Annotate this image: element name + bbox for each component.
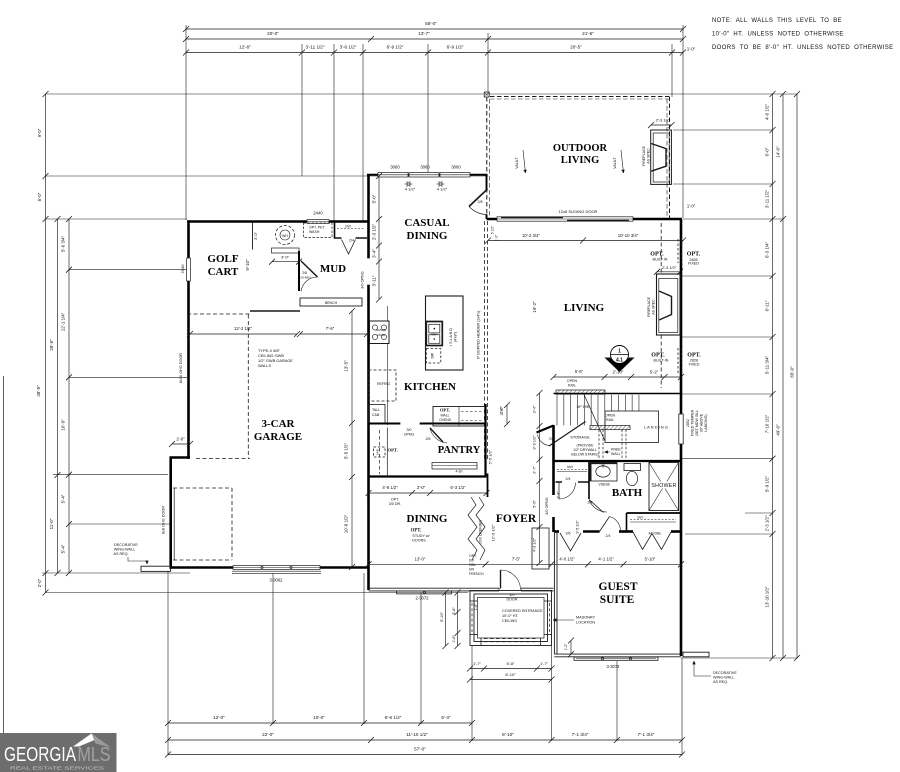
svg-text:DOORS TO BE 8′-0″ HT. UNL: DOORS TO BE 8′-0″ HT. UNLESS NOTED OTHER… [712, 45, 893, 51]
svg-text:55′-0″: 55′-0″ [425, 21, 437, 26]
svg-text:REFRIG: REFRIG [377, 382, 391, 386]
georgia mls logo box [0, 733, 117, 772]
decorative wing wall garage [141, 566, 171, 571]
svg-text:6′-3 1/2″: 6′-3 1/2″ [450, 485, 466, 490]
svg-text:2′-3 1/2″: 2′-3 1/2″ [372, 224, 377, 240]
svg-text:5′-0″: 5′-0″ [372, 194, 377, 203]
svg-text:10′-10 3/4″: 10′-10 3/4″ [618, 233, 639, 238]
left dim line 28'-5 column [57, 219, 59, 573]
dim 12'-2 1/2 garage [190, 333, 297, 335]
svg-text:5′-4″: 5′-4″ [61, 544, 66, 553]
section marker 1/4.1 [606, 358, 634, 372]
golf cart partial wall bottom [250, 310, 300, 312]
svg-text:RAIL: RAIL [568, 384, 576, 388]
outdoor fireplace [651, 130, 672, 184]
svg-text:9′-10″: 9′-10″ [245, 259, 250, 271]
svg-text:FIXED: FIXED [688, 262, 699, 266]
svg-text:1′-7″: 1′-7″ [473, 661, 482, 666]
dim row outdoor living sliding doors [488, 240, 683, 242]
svg-text:FIREPLACE: FIREPLACE [642, 145, 646, 166]
svg-text:sh/r: sh/r [345, 225, 352, 229]
svg-text:5′-2″: 5′-2″ [650, 370, 659, 375]
svg-text:2′-3 1/2″: 2′-3 1/2″ [656, 118, 671, 123]
svg-text:3/0 DR.: 3/0 DR. [389, 502, 402, 506]
dim line x352 kitchen depth [351, 311, 353, 567]
svg-text:3-3062: 3-3062 [269, 578, 283, 583]
bottom dim row2 [168, 739, 682, 741]
svg-text:10′-0″ HT. UNLESS NOTED OT: 10′-0″ HT. UNLESS NOTED OTHERWISE [712, 32, 844, 38]
svg-text:5′-6 3/4″: 5′-6 3/4″ [61, 236, 66, 252]
svg-text:4.1: 4.1 [616, 358, 623, 364]
svg-text:REAL ESTATE SERVICES: REAL ESTATE SERVICES [10, 766, 104, 771]
left dim line segments column [68, 219, 70, 573]
svg-text:OPT.: OPT. [411, 529, 422, 534]
svg-text:5′-11 3/4″: 5′-11 3/4″ [765, 355, 770, 374]
svg-text:6″ DOPPED HEADER (2x4′s): 6″ DOPPED HEADER (2x4′s) [477, 311, 481, 359]
svg-text:2′-0″: 2′-0″ [37, 578, 42, 587]
svg-text:10/0 OPENING: 10/0 OPENING [479, 520, 483, 544]
svg-text:(PROVIDE: (PROVIDE [577, 444, 595, 448]
svg-text:5′-10″: 5′-10″ [645, 556, 656, 561]
stair lower rail hatched [590, 426, 630, 430]
svg-text:10′-0″ HT.: 10′-0″ HT. [502, 614, 518, 618]
linen wall south segments [556, 481, 563, 483]
svg-text:5′-4″: 5′-4″ [61, 494, 66, 503]
svg-text:GARAGE: GARAGE [254, 431, 302, 443]
top dim row 55'-0" [186, 28, 683, 30]
island dishwasher [426, 349, 441, 364]
svg-text:3060: 3060 [420, 165, 430, 170]
covered entrance pier jamb lines [470, 600, 478, 602]
svg-text:13′-10 1/2″: 13′-10 1/2″ [765, 586, 770, 607]
left page edge line [3, 376, 5, 733]
svg-text:SINK: SINK [431, 333, 437, 336]
mud shelf 3'-0 [272, 248, 300, 253]
svg-text:FRENCH: FRENCH [469, 572, 484, 576]
svg-text:BENCH: BENCH [325, 301, 338, 305]
svg-text:DINING: DINING [407, 230, 448, 242]
right dim line 65'-0 [796, 94, 798, 658]
svg-text:3′-9 1/2″: 3′-9 1/2″ [532, 435, 537, 450]
opt wall ovens [433, 407, 486, 427]
svg-text:FIREPLACE: FIREPLACE [647, 296, 651, 317]
svg-text:12′-6 1/2″: 12′-6 1/2″ [491, 524, 496, 541]
svg-text:2′-0″: 2′-0″ [417, 485, 426, 490]
svg-text:20′-5″: 20′-5″ [570, 45, 582, 50]
svg-text:12′-6″: 12′-6″ [239, 45, 251, 50]
svg-text:4′-0 1/2″: 4′-0 1/2″ [765, 104, 770, 120]
svg-text:2/6: 2/6 [549, 437, 554, 441]
dashed header kitchen-living boundary [484, 221, 486, 460]
landing box [605, 411, 659, 443]
dashed line living west of fireplace [660, 223, 662, 274]
svg-text:1′-2″: 1′-2″ [564, 643, 568, 651]
wall bedroom north y531.5 segments [555, 530, 560, 533]
svg-text:2′-6″: 2′-6″ [499, 406, 504, 414]
shower [649, 463, 679, 511]
corner marker at outdoor living NW [484, 92, 489, 97]
svg-text:13′-7″: 13′-7″ [418, 31, 430, 36]
svg-text:6′-3 1/4″: 6′-3 1/4″ [765, 242, 770, 258]
svg-text:7′-1 3/4″: 7′-1 3/4″ [638, 732, 655, 737]
svg-text:3′-0″: 3′-0″ [253, 231, 258, 240]
small dim 1'-2 guest SW [570, 641, 572, 655]
svg-text:STORAGE: STORAGE [570, 435, 590, 440]
covered entrance bottom dims [470, 668, 552, 670]
dim row y564 dining/foyer/guest [369, 563, 682, 565]
svg-text:HOOD: HOOD [377, 333, 385, 337]
svg-text:6′-9 1/2″: 6′-9 1/2″ [447, 45, 464, 50]
svg-text:10′-2 3/4″: 10′-2 3/4″ [522, 233, 541, 238]
svg-text:5′-10″: 5′-10″ [440, 612, 444, 622]
svg-text:1/2″ DRYWALL: 1/2″ DRYWALL [573, 448, 597, 452]
svg-text:LIVING: LIVING [564, 302, 605, 314]
svg-text:4′-0 1/2″: 4′-0 1/2″ [559, 556, 575, 561]
svg-text:CEILING: CEILING [502, 619, 517, 623]
dim 7'-6 mud [300, 333, 367, 335]
decorative wing wall guest [683, 652, 709, 657]
svg-text:5′-5 1/2″: 5′-5 1/2″ [488, 449, 493, 464]
svg-text:DOORS: DOORS [412, 539, 426, 543]
stair top rail hatched [556, 390, 605, 394]
svg-text:DINING: DINING [407, 513, 448, 525]
range [370, 321, 390, 344]
wall dining/foyer south double line [369, 587, 500, 589]
svg-text:RAIL: RAIL [606, 418, 614, 422]
svg-text:5′-5 1/2″: 5′-5 1/2″ [344, 443, 349, 459]
guest closet shelf [630, 519, 676, 521]
svg-text:2′-3″: 2′-3″ [557, 491, 561, 499]
wall pantry east solid [484, 404, 486, 477]
svg-text:14′-0″: 14′-0″ [776, 146, 781, 158]
svg-text:7′-6″: 7′-6″ [326, 326, 335, 331]
wall guest west double line [553, 532, 555, 655]
right dim line 14'/49' [782, 94, 784, 658]
door 2/4 hall [559, 483, 576, 500]
svg-text:36″ ABOVE: 36″ ABOVE [700, 413, 704, 432]
bottom extension lines [167, 571, 169, 756]
svg-text:4 1/2″: 4 1/2″ [405, 187, 416, 192]
wh nook separator wall [252, 223, 254, 250]
svg-text:AS SPEC: AS SPEC [652, 299, 656, 315]
svg-text:BELOW STAIRS): BELOW STAIRS) [571, 453, 598, 457]
window band 3-3062 garage south [233, 565, 320, 569]
wall golf cart north [187, 220, 368, 223]
svg-text:1′-7″: 1′-7″ [540, 661, 549, 666]
svg-text:WH: WH [282, 234, 288, 238]
top extension lines [185, 25, 187, 220]
kitchen counter edge [387, 306, 389, 321]
left dim line 38'-5 column [45, 94, 47, 593]
covered entrance masonry dashes [471, 603, 473, 633]
wall closet side [626, 513, 628, 532]
left extension ticks [46, 175, 489, 177]
mullion marks 4 1/2 [407, 182, 410, 185]
svg-text:WING-WALL: WING-WALL [114, 548, 135, 552]
knee wall dashed [598, 430, 600, 459]
stair dim column x539 [539, 393, 541, 563]
foyer niche rect [532, 528, 549, 569]
svg-text:6′-6 1/2″: 6′-6 1/2″ [385, 715, 402, 720]
svg-text:5′-8″: 5′-8″ [507, 661, 516, 666]
svg-text:GUEST: GUEST [599, 581, 638, 593]
svg-text:4′-8 1/2″: 4′-8 1/2″ [382, 485, 398, 490]
svg-text:GEORGIA: GEORGIA [4, 744, 77, 766]
svg-text:4 1/2″: 4 1/2″ [437, 187, 448, 192]
svg-text:6′-9 1/2″: 6′-9 1/2″ [387, 45, 404, 50]
foyer door 3/0 leaf and arc [500, 570, 502, 589]
bench mud south [300, 298, 362, 306]
svg-text:5′-0″: 5′-0″ [37, 192, 42, 201]
svg-text:12′-2 1/2″: 12′-2 1/2″ [234, 326, 253, 331]
svg-text:5′-6″: 5′-6″ [532, 500, 537, 508]
svg-text:5′-4″: 5′-4″ [441, 715, 451, 720]
toilet [624, 464, 641, 471]
svg-text:13′-0″: 13′-0″ [415, 556, 426, 561]
opt desk dashed [374, 447, 386, 457]
svg-text:11′-0″: 11′-0″ [49, 518, 54, 529]
svg-text:3-CAR: 3-CAR [262, 418, 296, 430]
wall kitchen south [369, 423, 487, 425]
svg-text:2440: 2440 [376, 448, 380, 455]
svg-text:22′-0″: 22′-0″ [262, 732, 274, 737]
top dim row 20'/13'-7/21'-5 [186, 38, 683, 40]
svg-text:7′-10 1/2″: 7′-10 1/2″ [765, 414, 770, 433]
svg-text:2′-0″: 2′-0″ [176, 437, 185, 442]
opt pet wash cabinet [304, 223, 333, 238]
svg-text:21′-5″: 21′-5″ [582, 31, 594, 36]
svg-text:2′-7″: 2′-7″ [532, 466, 537, 474]
wall piece casual NE corner [486, 175, 488, 190]
svg-text:1′-0″: 1′-0″ [687, 47, 696, 52]
svg-text:LIVING: LIVING [561, 155, 600, 166]
wall bath north [553, 460, 682, 462]
svg-text:(4′x8″): (4′x8″) [454, 332, 458, 342]
pantry shelves [432, 463, 477, 470]
svg-text:VAULT: VAULT [515, 156, 519, 168]
window 2440 mud north [307, 219, 329, 223]
svg-text:13′-5″: 13′-5″ [344, 360, 349, 372]
svg-text:2′-10″: 2′-10″ [613, 370, 624, 375]
vanity VSB36 [591, 463, 618, 482]
wall casual dining north windowed [367, 174, 488, 176]
svg-text:OPT.: OPT. [391, 498, 399, 502]
covered entrance step dashes [484, 638, 538, 640]
sliding door 12x8 [497, 216, 633, 221]
svg-text:28′-5″: 28′-5″ [49, 339, 54, 351]
svg-text:UP 19R: UP 19R [577, 405, 590, 409]
pantry door 2/6 [430, 428, 443, 442]
svg-text:10′-8 1/2″: 10′-8 1/2″ [344, 514, 349, 533]
svg-text:I S L A N D: I S L A N D [449, 328, 453, 346]
svg-text:DW: DW [431, 352, 435, 358]
svg-text:3′-5 1/2″: 3′-5 1/2″ [576, 520, 580, 534]
svg-text:8′-10″: 8′-10″ [505, 672, 516, 677]
svg-text:4/0 DBL: 4/0 DBL [649, 532, 662, 536]
dim row under pantry wall [369, 492, 487, 494]
windows 3060 casual dining [378, 172, 408, 177]
svg-text:L A N D I N G: L A N D I N G [644, 425, 668, 430]
outdoor living dashed north edge [490, 96, 669, 98]
svg-text:8x8 OHG DOOR: 8x8 OHG DOOR [162, 506, 166, 535]
svg-text:2′-3 1/2″: 2′-3 1/2″ [765, 515, 770, 531]
svg-text:2/4: 2/4 [606, 534, 611, 538]
svg-text:49′-0″: 49′-0″ [776, 424, 781, 436]
svg-text:AS REQ.: AS REQ. [114, 552, 129, 556]
svg-text:KITCHEN: KITCHEN [404, 381, 456, 393]
svg-text:3′-8″: 3′-8″ [452, 607, 456, 615]
svg-text:MASONRY: MASONRY [576, 616, 596, 620]
svg-text:3′-11 1/2″: 3′-11 1/2″ [765, 189, 770, 208]
svg-text:9′-0″: 9′-0″ [37, 128, 42, 137]
svg-text:3060: 3060 [451, 165, 461, 170]
garage dashed ceiling line vertical [247, 315, 249, 459]
svg-text:MUD: MUD [320, 263, 346, 275]
wall guest south double line [554, 653, 681, 655]
svg-text:WING-WALL: WING-WALL [713, 676, 734, 680]
living fireplace [657, 274, 681, 335]
wall sliding door south of outdoor living [487, 218, 683, 221]
svg-text:1′-0″: 1′-0″ [687, 204, 696, 209]
water heater circle [276, 226, 295, 245]
window 2040 in west wall [186, 258, 191, 281]
top dim row segments [186, 52, 683, 54]
svg-text:1′-6″: 1′-6″ [452, 635, 456, 643]
svg-text:3′-4″: 3′-4″ [532, 405, 537, 413]
logo mountain white [73, 734, 98, 747]
svg-text:2/6: 2/6 [566, 532, 571, 536]
dim row living south [554, 376, 682, 378]
svg-text:LANDING): LANDING) [704, 414, 708, 431]
refrigerator dashed [369, 370, 397, 401]
svg-text:7′-1 3/4″: 7′-1 3/4″ [572, 732, 589, 737]
svg-text:DBL: DBL [469, 563, 476, 567]
svg-text:CART: CART [208, 266, 239, 278]
svg-text:RANGE: RANGE [376, 328, 386, 332]
svg-text:BUILT-IN: BUILT-IN [653, 258, 668, 262]
svg-text:NOTE: ALL WALLS THIS LEVEL: NOTE: ALL WALLS THIS LEVEL TO BE [712, 18, 842, 24]
svg-text:WALL: WALL [611, 452, 621, 456]
wall dining-foyer stub [487, 474, 489, 498]
window 2852 at landing [678, 414, 684, 444]
svg-text:10′-0″: 10′-0″ [313, 715, 325, 720]
svg-text:BATH: BATH [612, 487, 643, 499]
door 2/8 20-min garage to mud [301, 261, 318, 277]
svg-text:65′-0″: 65′-0″ [790, 366, 795, 378]
right extension ticks [673, 129, 773, 131]
top reference line y94 [46, 93, 798, 95]
svg-text:FIXED TEMPER: FIXED TEMPER [691, 409, 695, 436]
covered entrance outer walls [470, 591, 552, 646]
svg-text:OPT.: OPT. [469, 554, 477, 558]
svg-text:12′-0″: 12′-0″ [213, 715, 225, 720]
svg-text:3′-4″: 3′-4″ [372, 249, 377, 258]
svg-text:WALL: WALL [440, 414, 449, 418]
svg-text:20′-0″: 20′-0″ [267, 31, 279, 36]
wall pantry south [369, 475, 487, 477]
svg-text:STUDY w/: STUDY w/ [412, 534, 430, 538]
svg-text:6/0: 6/0 [469, 559, 474, 563]
garage dashed corner jog [196, 458, 250, 460]
svg-text:2/4: 2/4 [566, 477, 571, 481]
covered entrance inner lines [474, 594, 548, 642]
garage dashed parking rect [173, 487, 232, 489]
stair diagonal break [584, 395, 605, 442]
svg-text:OVENS: OVENS [439, 418, 452, 422]
svg-text:sh/r: sh/r [567, 465, 574, 469]
svg-text:3′-11″: 3′-11″ [372, 275, 377, 286]
svg-text:OPT.: OPT. [440, 408, 450, 413]
svg-text:3′-6 1/2″: 3′-6 1/2″ [340, 45, 357, 50]
svg-text:3/0 OPNG: 3/0 OPNG [545, 497, 549, 515]
island sink [426, 322, 442, 346]
svg-text:4-sh: 4-sh [456, 470, 463, 474]
outdoor living dashed west edge [486, 97, 488, 218]
svg-text:VAULT: VAULT [613, 156, 617, 168]
svg-text:20-MIN: 20-MIN [300, 276, 310, 280]
svg-text:COVERED ENTRANCE: COVERED ENTRANCE [502, 609, 543, 613]
svg-text:1′-3″: 1′-3″ [495, 234, 499, 241]
wall garage west jog [170, 456, 191, 459]
label 2'-0 jog dim [172, 443, 190, 445]
covered entrance side dims [445, 593, 447, 647]
svg-text:OPEN: OPEN [605, 414, 616, 418]
wall mud/golf cart partition [298, 251, 300, 291]
svg-text:4′-3 1/2″: 4′-3 1/2″ [532, 537, 537, 552]
golf cart dashed bottom [187, 313, 250, 315]
svg-text:DECORATIVE: DECORATIVE [713, 671, 737, 675]
mud dim column x379 [378, 176, 380, 300]
svg-text:2/8: 2/8 [302, 271, 307, 275]
wall living south / stair rail line [554, 393, 682, 395]
svg-text:57′-0″: 57′-0″ [414, 747, 426, 752]
svg-text:AS SPEC: AS SPEC [647, 148, 651, 164]
svg-text:MLS: MLS [78, 744, 111, 766]
svg-text:8x16 OHG DOOR: 8x16 OHG DOOR [179, 353, 183, 384]
svg-text:1′-6″: 1′-6″ [474, 603, 478, 611]
svg-text:2/8: 2/8 [478, 200, 483, 204]
door 2/4 bath entry [589, 500, 604, 513]
outdoor fireplace dim [651, 124, 672, 126]
svg-text:FIXED: FIXED [689, 362, 700, 366]
svg-text:2040: 2040 [180, 264, 185, 274]
svg-text:6′-11″: 6′-11″ [765, 300, 770, 311]
svg-text:10′-9″: 10′-9″ [61, 419, 66, 431]
svg-text:TALL: TALL [372, 408, 380, 412]
svg-text:38′-5″: 38′-5″ [36, 385, 41, 397]
svg-text:VSB36: VSB36 [598, 483, 609, 487]
svg-text:2/4: 2/4 [349, 239, 354, 243]
svg-text:OUTDOOR: OUTDOOR [553, 143, 608, 154]
foyer opening zigzag break [468, 497, 477, 560]
logo mountain grey [92, 734, 112, 748]
svg-text:sh/r: sh/r [637, 516, 644, 520]
svg-text:DECORATIVE: DECORATIVE [114, 543, 138, 547]
windows 3-3072 guest south band [574, 657, 658, 660]
wall under shower [627, 512, 682, 514]
wall golf cart west [187, 220, 190, 458]
bottom dim row1 [168, 722, 472, 724]
svg-text:CAB.: CAB. [372, 413, 380, 417]
svg-text:5 1/2″: 5 1/2″ [491, 225, 495, 234]
svg-text:GOLF: GOLF [207, 253, 238, 265]
svg-text:PANTRY: PANTRY [438, 445, 481, 456]
svg-text:5′-6″: 5′-6″ [575, 369, 584, 374]
svg-text:DOOR: DOOR [506, 598, 517, 602]
wall garage south [170, 566, 369, 569]
svg-text:6′-0″: 6′-0″ [765, 147, 770, 156]
windows 2-3072 dining south band [397, 591, 452, 594]
